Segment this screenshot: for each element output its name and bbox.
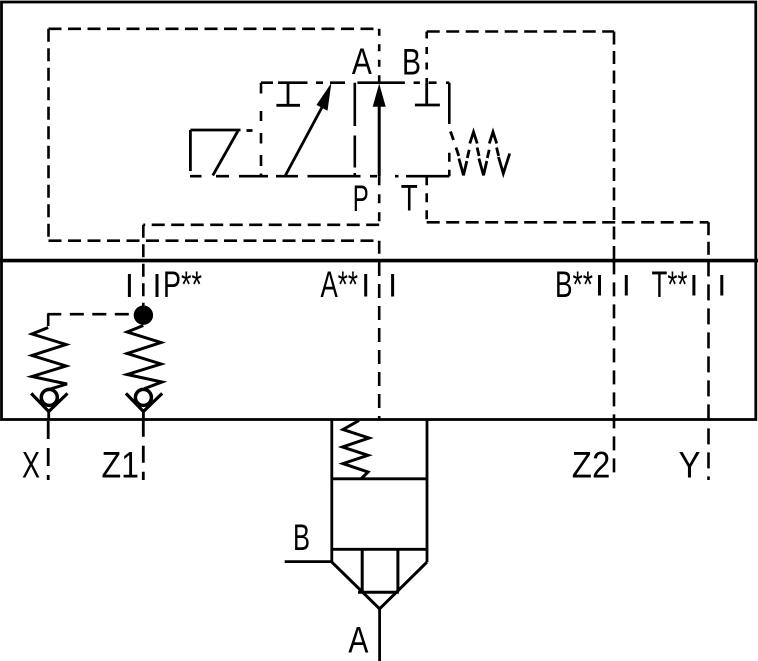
top edge segments [261, 81, 449, 84]
pilot interface boundary rect 2 [427, 32, 614, 261]
svg-text:A: A [348, 619, 368, 660]
wire Z1 below manifold [142, 420, 145, 480]
blocked port symbol A (left box) [276, 83, 300, 106]
svg-text:Z1: Z1 [102, 444, 140, 485]
wire T port to Y channel [427, 176, 709, 260]
T channel stub bar left [692, 275, 695, 296]
svg-text:B**: B** [555, 264, 593, 305]
svg-text:T: T [401, 178, 418, 219]
P channel stub bar left [128, 274, 131, 297]
wire X below manifold [47, 421, 50, 480]
svg-text:Z2: Z2 [572, 444, 611, 485]
bottom edge segments (includes solenoid bottom) [190, 175, 449, 178]
logic valve poppet [332, 549, 427, 609]
A channel stub bar right [391, 274, 394, 297]
wire Z2 channel [613, 260, 616, 480]
wire port B of cartridge [285, 560, 332, 563]
svg-text:B: B [402, 42, 421, 83]
pilot interface boundary rect 1 [49, 29, 380, 261]
wire junction to X branch [47, 313, 134, 316]
return spring (dashed zigzag) [451, 132, 510, 176]
check valve X: ball [41, 389, 57, 405]
P channel stub bar right [156, 274, 159, 297]
rect 1 right edge above valve / A-B divider stub [378, 29, 381, 83]
left edge segments [260, 83, 263, 177]
wire port A of cartridge [378, 609, 381, 661]
divider segments [353, 83, 356, 177]
svg-text:Y: Y [679, 444, 701, 485]
svg-text:T**: T** [652, 264, 688, 305]
check valve X: spring [32, 328, 67, 390]
B channel stub bar right [625, 275, 628, 296]
blocked port symbol B (right box) [415, 83, 440, 105]
svg-text:A**: A** [321, 264, 359, 305]
check valve X: seat [31, 393, 67, 411]
svg-text:P: P [353, 178, 369, 219]
A channel stub bar left [364, 274, 367, 297]
B channel stub bar left [598, 275, 601, 296]
wire Y channel [707, 260, 710, 480]
proportional adjustment arrow [285, 97, 327, 176]
wire A channel through manifold [378, 262, 381, 419]
wire P port down and across to Z1 [143, 176, 379, 306]
logic valve spring [343, 421, 370, 479]
check valve Z1: ball [135, 389, 151, 405]
logic cartridge valve body [332, 419, 427, 562]
svg-text:A: A [352, 41, 372, 82]
svg-text:B: B [293, 517, 310, 558]
svg-text:P**: P** [163, 264, 202, 305]
T channel stub bar right [720, 275, 723, 296]
right edge segments [448, 83, 451, 177]
flow path arrow P to A [378, 102, 381, 176]
svg-text:X: X [22, 444, 40, 485]
pilot valve outline (dashed boxes) [190, 83, 449, 177]
check valve Z1: seat [126, 393, 162, 411]
housing outer frame [2, 2, 756, 420]
proportional solenoid [190, 130, 252, 175]
manifold dividing surface [0, 259, 758, 263]
node B line above valve [425, 32, 428, 83]
check valve Z1: spring [127, 326, 162, 389]
junction node dot [134, 306, 153, 325]
